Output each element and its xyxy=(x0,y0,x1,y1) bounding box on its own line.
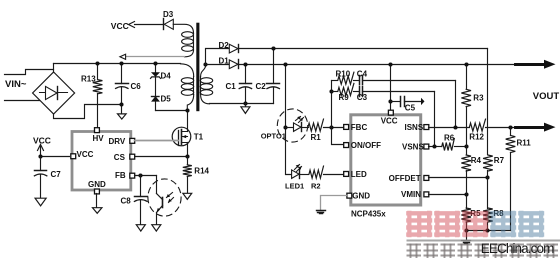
label NCP435x xyxy=(351,209,386,218)
node rail-R5 junction xyxy=(464,228,468,232)
label VCC mid left xyxy=(33,136,51,146)
svg-text:FB: FB xyxy=(115,171,126,180)
label VOUT xyxy=(533,91,560,102)
node C2 top junction xyxy=(271,46,275,50)
svg-text:D1: D1 xyxy=(219,56,230,65)
resistor R9 xyxy=(332,83,360,101)
svg-text:VSNS: VSNS xyxy=(402,142,424,151)
resistor R13 xyxy=(81,64,102,128)
ic NCP435x box xyxy=(351,115,425,205)
svg-text:R10: R10 xyxy=(336,70,351,79)
node OFFDET junction xyxy=(485,175,489,179)
svg-text:VCC: VCC xyxy=(111,21,129,31)
ground under bottom rail xyxy=(462,231,471,244)
node R12-R11 junction xyxy=(508,125,512,129)
node rail-R3 junction xyxy=(464,62,468,66)
svg-text:EEChina.com: EEChina.com xyxy=(481,241,554,256)
node FBC junction xyxy=(329,125,333,129)
node rail-C6 junction xyxy=(119,61,123,65)
pin HV xyxy=(95,128,100,133)
node VCC-C5 junction xyxy=(388,99,392,103)
node VCC arrow xyxy=(129,22,135,28)
wire VOUT+ rail xyxy=(239,64,516,66)
OPTO1 dashed ellipse xyxy=(277,109,307,142)
wire right branch down xyxy=(487,49,489,155)
node opto branch junction xyxy=(283,125,287,129)
svg-text:HV: HV xyxy=(93,134,105,143)
wire D4-D5 xyxy=(155,77,157,97)
transformer aux winding xyxy=(182,32,194,57)
pin FB xyxy=(130,173,135,178)
svg-text:C6: C6 xyxy=(131,82,142,91)
resistor R2 xyxy=(300,166,344,190)
svg-text:D2: D2 xyxy=(219,41,230,50)
opto dashed ellipse xyxy=(148,179,181,216)
wire VCC to D3 xyxy=(135,24,164,26)
node VSNS-C3 junction xyxy=(432,144,436,148)
resistor R12 xyxy=(469,119,515,142)
pin GND left IC xyxy=(95,189,100,194)
svg-text:C4: C4 xyxy=(357,70,368,79)
resistor R11 xyxy=(506,128,532,231)
node R9 branch junction xyxy=(329,89,333,93)
wire T1 drain xyxy=(187,111,189,132)
ground under left IC xyxy=(93,194,102,214)
node FB-C8 junction xyxy=(138,173,142,177)
svg-text:GND: GND xyxy=(352,192,370,201)
capacitor C1 xyxy=(226,65,252,104)
wire GND NCP to ground xyxy=(321,196,347,210)
svg-text:LED1: LED1 xyxy=(285,181,304,190)
node VCC arrow up xyxy=(38,145,44,157)
transistor T1 xyxy=(172,127,203,156)
node VMIN junction xyxy=(464,192,468,196)
svg-text:D3: D3 xyxy=(163,10,174,19)
wire sense branch down xyxy=(286,65,292,175)
optocoupler OPTO1 LED xyxy=(261,123,302,141)
capacitor C2 xyxy=(256,49,280,104)
node rail-VCC junction xyxy=(388,62,392,66)
wire CS line xyxy=(134,156,188,158)
wire to OPTO1 xyxy=(286,127,294,129)
svg-text:GND: GND xyxy=(88,180,106,189)
wire VCC branch NCP xyxy=(390,65,392,111)
wire OFFDET line xyxy=(429,177,488,179)
wire bridge top to HV rail xyxy=(53,64,55,73)
svg-text:ON/OFF: ON/OFF xyxy=(351,141,381,150)
svg-text:OPTO1: OPTO1 xyxy=(261,132,286,141)
capacitor C7 xyxy=(34,157,61,199)
node VOUT- arrow xyxy=(516,123,556,132)
ground under opto emitter xyxy=(152,225,161,231)
svg-text:D4: D4 xyxy=(161,72,172,81)
resistor R6 xyxy=(442,134,467,151)
transformer core xyxy=(196,23,199,112)
resistor R7 xyxy=(483,155,504,209)
svg-text:DRV: DRV xyxy=(109,137,126,146)
svg-text:VMIN: VMIN xyxy=(401,190,421,199)
svg-text:VCC: VCC xyxy=(381,117,398,126)
svg-text:D5: D5 xyxy=(161,95,172,104)
svg-text:R7: R7 xyxy=(494,156,505,165)
node VCC-C7 junction xyxy=(38,154,42,158)
wire FB line xyxy=(135,175,157,177)
wire VIN lower line xyxy=(5,100,40,102)
label VCC top xyxy=(111,21,129,31)
diode LED1 xyxy=(285,170,304,191)
capacitor C8 xyxy=(121,176,148,225)
wire D3 to aux winding xyxy=(173,24,193,33)
svg-text:R12: R12 xyxy=(469,133,484,142)
svg-text:LED: LED xyxy=(351,170,367,179)
svg-text:C5: C5 xyxy=(405,103,416,112)
svg-text:VOUT: VOUT xyxy=(533,91,560,102)
svg-text:ISNS: ISNS xyxy=(405,123,424,132)
node CS-R14 junction xyxy=(185,154,189,158)
svg-text:OFFDET: OFFDET xyxy=(389,174,421,183)
node secondary top junction xyxy=(203,62,207,66)
diode D1 xyxy=(219,56,239,68)
wire VIN upper line xyxy=(5,70,54,75)
ground under C1 xyxy=(241,104,250,114)
svg-text:C7: C7 xyxy=(51,170,62,179)
svg-text:R11: R11 xyxy=(517,139,532,148)
resistor R10 xyxy=(332,70,360,85)
wire FBC to ON/OFF branch xyxy=(332,128,344,145)
wire compensation branch up xyxy=(331,81,333,128)
wire HV top rail xyxy=(54,63,181,65)
ground under R14 xyxy=(183,193,192,199)
svg-text:C8: C8 xyxy=(121,197,132,206)
op-amp controller IC box xyxy=(72,132,131,191)
watermark slogan glyphs xyxy=(407,244,559,259)
diode D4 xyxy=(151,64,172,81)
node rail-sense junction xyxy=(283,62,287,66)
pin OFFDET xyxy=(424,176,429,181)
node C1 top junction xyxy=(243,62,247,66)
svg-text:R9: R9 xyxy=(339,93,350,102)
svg-text:R4: R4 xyxy=(471,156,482,165)
node drain junction xyxy=(185,108,189,112)
pin ON/OFF xyxy=(344,143,349,148)
wire C3 down to VSNS xyxy=(434,92,436,147)
resistor R8 xyxy=(483,208,504,231)
light arrows from OPTO1 xyxy=(296,116,304,122)
pin ISNS xyxy=(424,125,429,130)
capacitor C4 xyxy=(357,70,456,85)
label VIN xyxy=(5,79,27,90)
wire aux return (grey) xyxy=(120,54,185,59)
svg-text:R2: R2 xyxy=(311,181,321,190)
svg-text:FBC: FBC xyxy=(351,123,368,132)
wire VMIN line xyxy=(429,194,467,196)
optocoupler transistor side xyxy=(156,176,162,225)
wire D2 output rail xyxy=(239,48,488,50)
resistor R14 xyxy=(183,157,210,194)
svg-text:C3: C3 xyxy=(357,93,368,102)
light arrows from LED1 xyxy=(295,165,302,172)
capacitor C5 xyxy=(391,97,425,113)
diode D3 xyxy=(163,10,174,29)
ground under NCP GND xyxy=(317,211,326,214)
pin VSNS xyxy=(424,144,429,149)
pin DRV xyxy=(130,138,135,143)
watermark logo chars xyxy=(406,211,544,237)
watermark grey rule xyxy=(407,239,560,241)
node C6 bottom junction xyxy=(119,102,123,106)
resistor R4 xyxy=(461,155,481,209)
light arrows into opto xyxy=(167,193,174,203)
resistor R5 xyxy=(461,208,481,231)
wire D2 branch xyxy=(206,49,230,65)
wire ISNS line xyxy=(429,127,470,129)
diode D5 xyxy=(152,95,172,111)
node VOUT+ arrow xyxy=(516,60,556,69)
wire VCC to pin xyxy=(41,156,70,158)
pin FBC xyxy=(344,125,349,130)
transformer primary winding xyxy=(181,64,194,111)
ground under C6 xyxy=(118,114,127,119)
svg-text:VIN~: VIN~ xyxy=(5,79,27,90)
pin VMIN xyxy=(424,192,429,197)
node rail-R13 junction xyxy=(95,61,99,65)
node C1 bottom junction xyxy=(243,101,247,105)
wire DRV to gate (grey) xyxy=(135,140,179,142)
node ISNS-C4 junction xyxy=(453,125,457,129)
watermark EEChina.com xyxy=(481,241,554,256)
capacitor C6 xyxy=(116,64,142,114)
svg-text:T1: T1 xyxy=(194,133,204,142)
node rail-D4 junction xyxy=(153,61,157,65)
pin GND NCP xyxy=(347,193,352,198)
svg-text:NCP435x: NCP435x xyxy=(351,209,386,218)
pin VCC left IC xyxy=(71,154,76,159)
svg-text:C1: C1 xyxy=(226,82,237,91)
svg-text:CS: CS xyxy=(114,153,126,162)
svg-text:R6: R6 xyxy=(444,134,455,143)
wire bridge bottom return xyxy=(54,105,122,119)
svg-text:R3: R3 xyxy=(473,93,484,102)
pin VCC NCP xyxy=(388,110,393,115)
wire C4 down to ISNS line xyxy=(455,81,457,128)
wire bottom ground rail xyxy=(467,230,511,232)
node R6-R3 junction xyxy=(464,144,468,148)
transformer secondary winding xyxy=(200,64,212,104)
pin CS xyxy=(130,154,135,159)
svg-text:R13: R13 xyxy=(81,75,96,84)
svg-text:VCC: VCC xyxy=(33,136,51,146)
svg-text:VCC: VCC xyxy=(77,150,94,159)
capacitor C3 xyxy=(357,87,435,102)
ground under C8 xyxy=(136,225,145,231)
svg-text:R1: R1 xyxy=(311,133,322,142)
wire D5 to T1 drain xyxy=(156,110,188,112)
diode D2 xyxy=(219,41,239,53)
wire secondary ground rail xyxy=(210,103,274,105)
svg-text:C2: C2 xyxy=(256,82,267,91)
pin LED xyxy=(344,172,349,177)
wire D1 anode line xyxy=(206,64,230,66)
svg-text:R14: R14 xyxy=(194,167,209,176)
resistor R3 xyxy=(461,65,484,155)
ground under C7 xyxy=(35,198,46,206)
bridge rectifier xyxy=(33,72,75,114)
node rail-R8 junction xyxy=(485,228,489,232)
resistor R1 xyxy=(302,119,344,142)
wire VSNS line xyxy=(429,146,442,148)
